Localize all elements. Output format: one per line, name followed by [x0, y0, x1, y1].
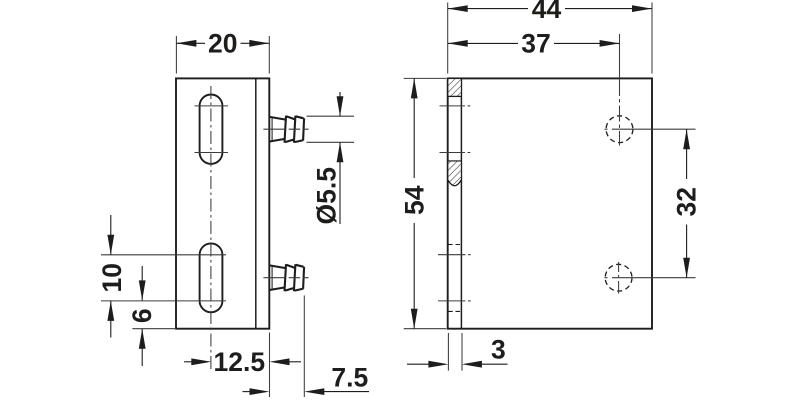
extension line right edge down (for 12.5 / 7.5): [269, 333, 271, 398]
svg-text:12.5: 12.5: [214, 347, 266, 377]
strip centermark (upper slot bottom): [440, 152, 466, 154]
dimension 7.5 right arrow: [322, 391, 369, 393]
svg-text:Ø5.5: Ø5.5: [312, 167, 342, 224]
lower peg centerline: [263, 277, 309, 279]
upper slot arc centermark top: [195, 105, 229, 107]
slot vertical centerline: [210, 86, 212, 369]
dimension 37 line and arrows: [448, 42, 620, 44]
extension line peg tip down (for 7.5): [303, 296, 305, 398]
svg-text:54: 54: [399, 185, 429, 215]
section hatch middle patch with break arc: [448, 162, 460, 186]
extension line / lower slot bottom arc centermark: [101, 300, 226, 302]
break arc: [448, 180, 461, 186]
upper peg centerline: [263, 128, 309, 130]
dimension 54 extension lines: [404, 77, 447, 79]
dimension 6 upper arrow: [141, 266, 143, 300]
svg-text:3: 3: [491, 334, 506, 364]
dimension 32 line and arrows: [686, 129, 688, 278]
dimension 3 extension lines: [447, 333, 449, 371]
extension line at plate bottom left: [132, 328, 176, 330]
hidden line lower slot bottom: [448, 310, 461, 312]
strip centermark (lower slot top): [438, 254, 466, 256]
dimension 7.5 left arrow: [243, 391, 252, 393]
upper slot arc centermark bottom: [195, 152, 229, 154]
left view inner face line (3mm flange inside edge): [255, 78, 257, 328]
dimension 10 lower arrow: [110, 301, 112, 338]
upper slot (obround): [200, 94, 223, 163]
svg-text:20: 20: [208, 28, 237, 58]
svg-text:6: 6: [127, 308, 157, 323]
lower slot (obround): [200, 243, 223, 312]
svg-text:7.5: 7.5: [331, 363, 368, 393]
lower barbed peg: [270, 264, 305, 291]
svg-text:44: 44: [532, 0, 562, 24]
dimension 20 extension lines: [175, 36, 177, 74]
upper peg root line: [271, 118, 273, 141]
lower hole horizontal centerline / 32 extension: [605, 277, 696, 279]
lower hole vertical centerline: [618, 262, 620, 294]
flange strip inner line: [460, 78, 462, 328]
dimension 10 upper arrow: [110, 215, 112, 255]
extension line / lower slot top arc centermark: [101, 254, 226, 256]
dimension 12.5 left arrow: [184, 361, 193, 363]
svg-text:32: 32: [671, 187, 701, 216]
svg-text:37: 37: [521, 29, 550, 59]
dimension 20 line and arrows: [176, 42, 269, 44]
dimension 44 line and arrows: [448, 8, 652, 10]
lower hole (dashed circle): [605, 264, 632, 291]
upper hole (dashed circle): [606, 116, 633, 143]
strip centermark (lower slot bottom): [438, 300, 466, 302]
dimension 3 left arrow: [407, 363, 430, 365]
lower peg root line: [271, 266, 273, 289]
chord at top of middle hatch: [448, 160, 461, 162]
right view plate outline: [448, 78, 652, 328]
upper barbed peg: [270, 116, 305, 143]
hidden line lower slot top: [448, 244, 461, 246]
diameter 5.5 lower arrow: [339, 142, 341, 224]
left view plate outline: [176, 78, 269, 328]
dimension 12.5 right arrow: [287, 361, 301, 363]
dimension 6 lower arrow: [141, 329, 143, 366]
svg-text:10: 10: [97, 263, 127, 292]
dimension 3 right arrow: [480, 363, 508, 365]
section hatch upper patch: [448, 79, 460, 96]
chord at bottom of upper hatch: [448, 95, 461, 97]
upper hole vertical centerline / 37 extension: [619, 34, 621, 146]
dimension 54 line and arrows: [413, 78, 415, 328]
diameter 5.5 upper arrow: [339, 92, 341, 116]
strip centermark (upper slot top): [440, 105, 466, 107]
dimension 44 extension lines: [447, 3, 449, 74]
upper hole horizontal centerline / 32 extension: [605, 128, 696, 130]
diameter 5.5 extension lines: [307, 115, 355, 117]
